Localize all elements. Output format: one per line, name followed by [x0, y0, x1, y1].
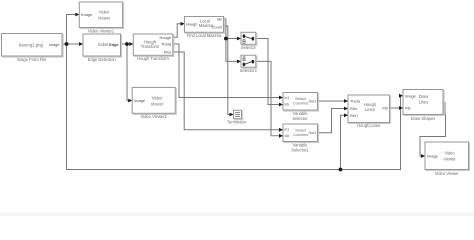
wire branch up to Video Viewer1 [67, 15, 80, 45]
svg-text:Video: Video [99, 10, 110, 15]
wire Draw Shapes out to Video Viewer [420, 115, 446, 157]
svg-text:Columns: Columns [293, 132, 308, 137]
svg-text:Video Viewer1: Video Viewer1 [88, 28, 115, 33]
wire Variable Selector Out1 to Hough Lines Theta [318, 100, 349, 102]
svg-text:Hough Transform: Hough Transform [137, 56, 169, 61]
svg-text:Idx: Idx [285, 134, 290, 138]
block Hough Lines [348, 95, 391, 124]
block Variable Selector [283, 93, 319, 112]
wire Draw Shapes out grey segment [443, 102, 446, 115]
arrowhead Sel in [237, 37, 241, 41]
svg-text:Selector: Selector [241, 45, 257, 50]
block Selector [241, 32, 257, 45]
svg-text:Viewer: Viewer [443, 157, 456, 162]
arrowhead VV3 in [421, 154, 425, 158]
svg-text:Out1: Out1 [309, 131, 316, 135]
arrowhead VV1 in [75, 13, 79, 17]
bottom window edge [0, 213, 474, 217]
svg-text:Hough: Hough [186, 21, 197, 26]
wire Pts to Draw Shapes [390, 107, 404, 109]
svg-text:Hough: Hough [160, 35, 171, 40]
wire Theta to Variable Selector In1 [173, 44, 283, 98]
arrowhead HT in [129, 42, 133, 46]
arrowhead Sel1 in [237, 60, 241, 64]
svg-text:Theta: Theta [161, 42, 172, 47]
svg-text:Edge: Edge [109, 42, 119, 47]
arrowhead HL Rho [344, 107, 348, 111]
block Terminator [234, 110, 243, 120]
wire Variable Selector1 Out1 to Hough Lines Rho [318, 109, 349, 133]
wire Hough out to Find Local Maxima [173, 24, 185, 38]
svg-text:In1: In1 [285, 128, 290, 132]
svg-text:Video: Video [152, 96, 163, 101]
svg-text:Selector1: Selector1 [291, 148, 309, 153]
svg-text:Video Viewer2: Video Viewer2 [141, 114, 168, 119]
svg-text:Sobel: Sobel [98, 42, 109, 47]
svg-text:Out1: Out1 [309, 100, 316, 104]
svg-text:Image: Image [81, 12, 92, 17]
block Hough Transform [133, 34, 174, 56]
block Edge Detection [83, 34, 122, 57]
svg-text:Image From File: Image From File [17, 57, 48, 62]
junction A [65, 42, 69, 46]
wire ImageFromFile out [62, 43, 67, 45]
svg-text:Image: Image [427, 154, 438, 159]
arrowhead Term in [230, 113, 234, 117]
svg-text:Lines: Lines [365, 107, 375, 112]
arrowhead HL Theta [344, 99, 348, 103]
arrowhead ED in [79, 42, 83, 46]
arrowhead VS Idx [279, 103, 283, 107]
svg-text:Transform: Transform [141, 44, 160, 49]
arrowhead VS1 Idx [279, 134, 283, 138]
svg-text:Selector: Selector [292, 116, 308, 121]
svg-text:Image: Image [49, 42, 60, 47]
svg-text:Image: Image [405, 93, 416, 98]
arrowhead DS Image [399, 94, 403, 98]
arrowhead DS Pts [399, 106, 403, 110]
block Video Viewer [425, 142, 470, 171]
svg-text:Pts: Pts [405, 106, 411, 111]
svg-text:Viewer: Viewer [98, 16, 111, 21]
block Variable Selector1 [283, 124, 319, 143]
wire Selector out to Variable Selector Idx [256, 39, 283, 105]
svg-text:Hough Lines: Hough Lines [357, 123, 380, 128]
block Find Local Maxima [185, 17, 225, 34]
arrowhead VS In1 [279, 96, 283, 100]
svg-text:Selector1: Selector1 [240, 68, 258, 73]
block Video Viewer2 [132, 87, 176, 114]
svg-text:Theta: Theta [350, 99, 361, 104]
junction B [125, 42, 129, 46]
wire image long wire to Draw Shapes [67, 44, 404, 170]
wire to Edge Detection [67, 43, 84, 45]
wire Idx to Selector1 [224, 19, 242, 61]
svg-text:Columns: Columns [293, 101, 308, 106]
svg-text:In1: In1 [285, 96, 290, 100]
svg-text:Image: Image [134, 98, 145, 103]
svg-text:Video: Video [444, 151, 455, 156]
wire Idx branch to Selector [226, 38, 241, 40]
svg-text:Idx: Idx [217, 17, 222, 22]
block Video Viewer1 [79, 2, 123, 29]
svg-text:Count: Count [212, 25, 223, 30]
svg-text:Edge Detection: Edge Detection [88, 57, 117, 62]
wire Count to Terminator [224, 26, 234, 115]
wire branch to Hough Lines Ref I [341, 115, 349, 169]
block Selector1 [241, 55, 257, 68]
svg-text:Video Viewer: Video Viewer [435, 171, 460, 176]
arrowhead VS1 In1 [279, 128, 283, 132]
svg-text:Viewer: Viewer [151, 102, 164, 107]
arrowhead HL RefI [344, 113, 348, 117]
junction D [339, 168, 343, 172]
svg-text:Find Local Maxima: Find Local Maxima [187, 33, 222, 38]
junction C [224, 37, 228, 41]
svg-text:Terminator: Terminator [227, 119, 247, 124]
svg-text:Rho: Rho [164, 50, 171, 55]
svg-text:Rho: Rho [350, 106, 357, 111]
arrowhead VV2 in [128, 99, 132, 103]
wire Edge Detection out to Hough Transform [121, 43, 134, 45]
block Draw Shapes [403, 90, 444, 116]
block Image From File [2, 34, 64, 58]
svg-text:Lines: Lines [419, 100, 429, 105]
svg-text:Draw Shapes: Draw Shapes [411, 116, 436, 121]
svg-text:kareng1.png: kareng1.png [19, 42, 44, 47]
svg-text:Pts: Pts [382, 106, 388, 111]
wire Rho to Variable Selector1 In1 [173, 52, 283, 130]
svg-text:Ref I: Ref I [350, 113, 358, 118]
wire branch to Video Viewer2 [127, 44, 132, 101]
svg-text:Draw: Draw [419, 94, 429, 99]
wire Selector1 out to Variable Selector1 Idx [256, 61, 283, 135]
arrowhead FLM in [181, 22, 185, 26]
svg-text:Idx: Idx [285, 103, 290, 107]
